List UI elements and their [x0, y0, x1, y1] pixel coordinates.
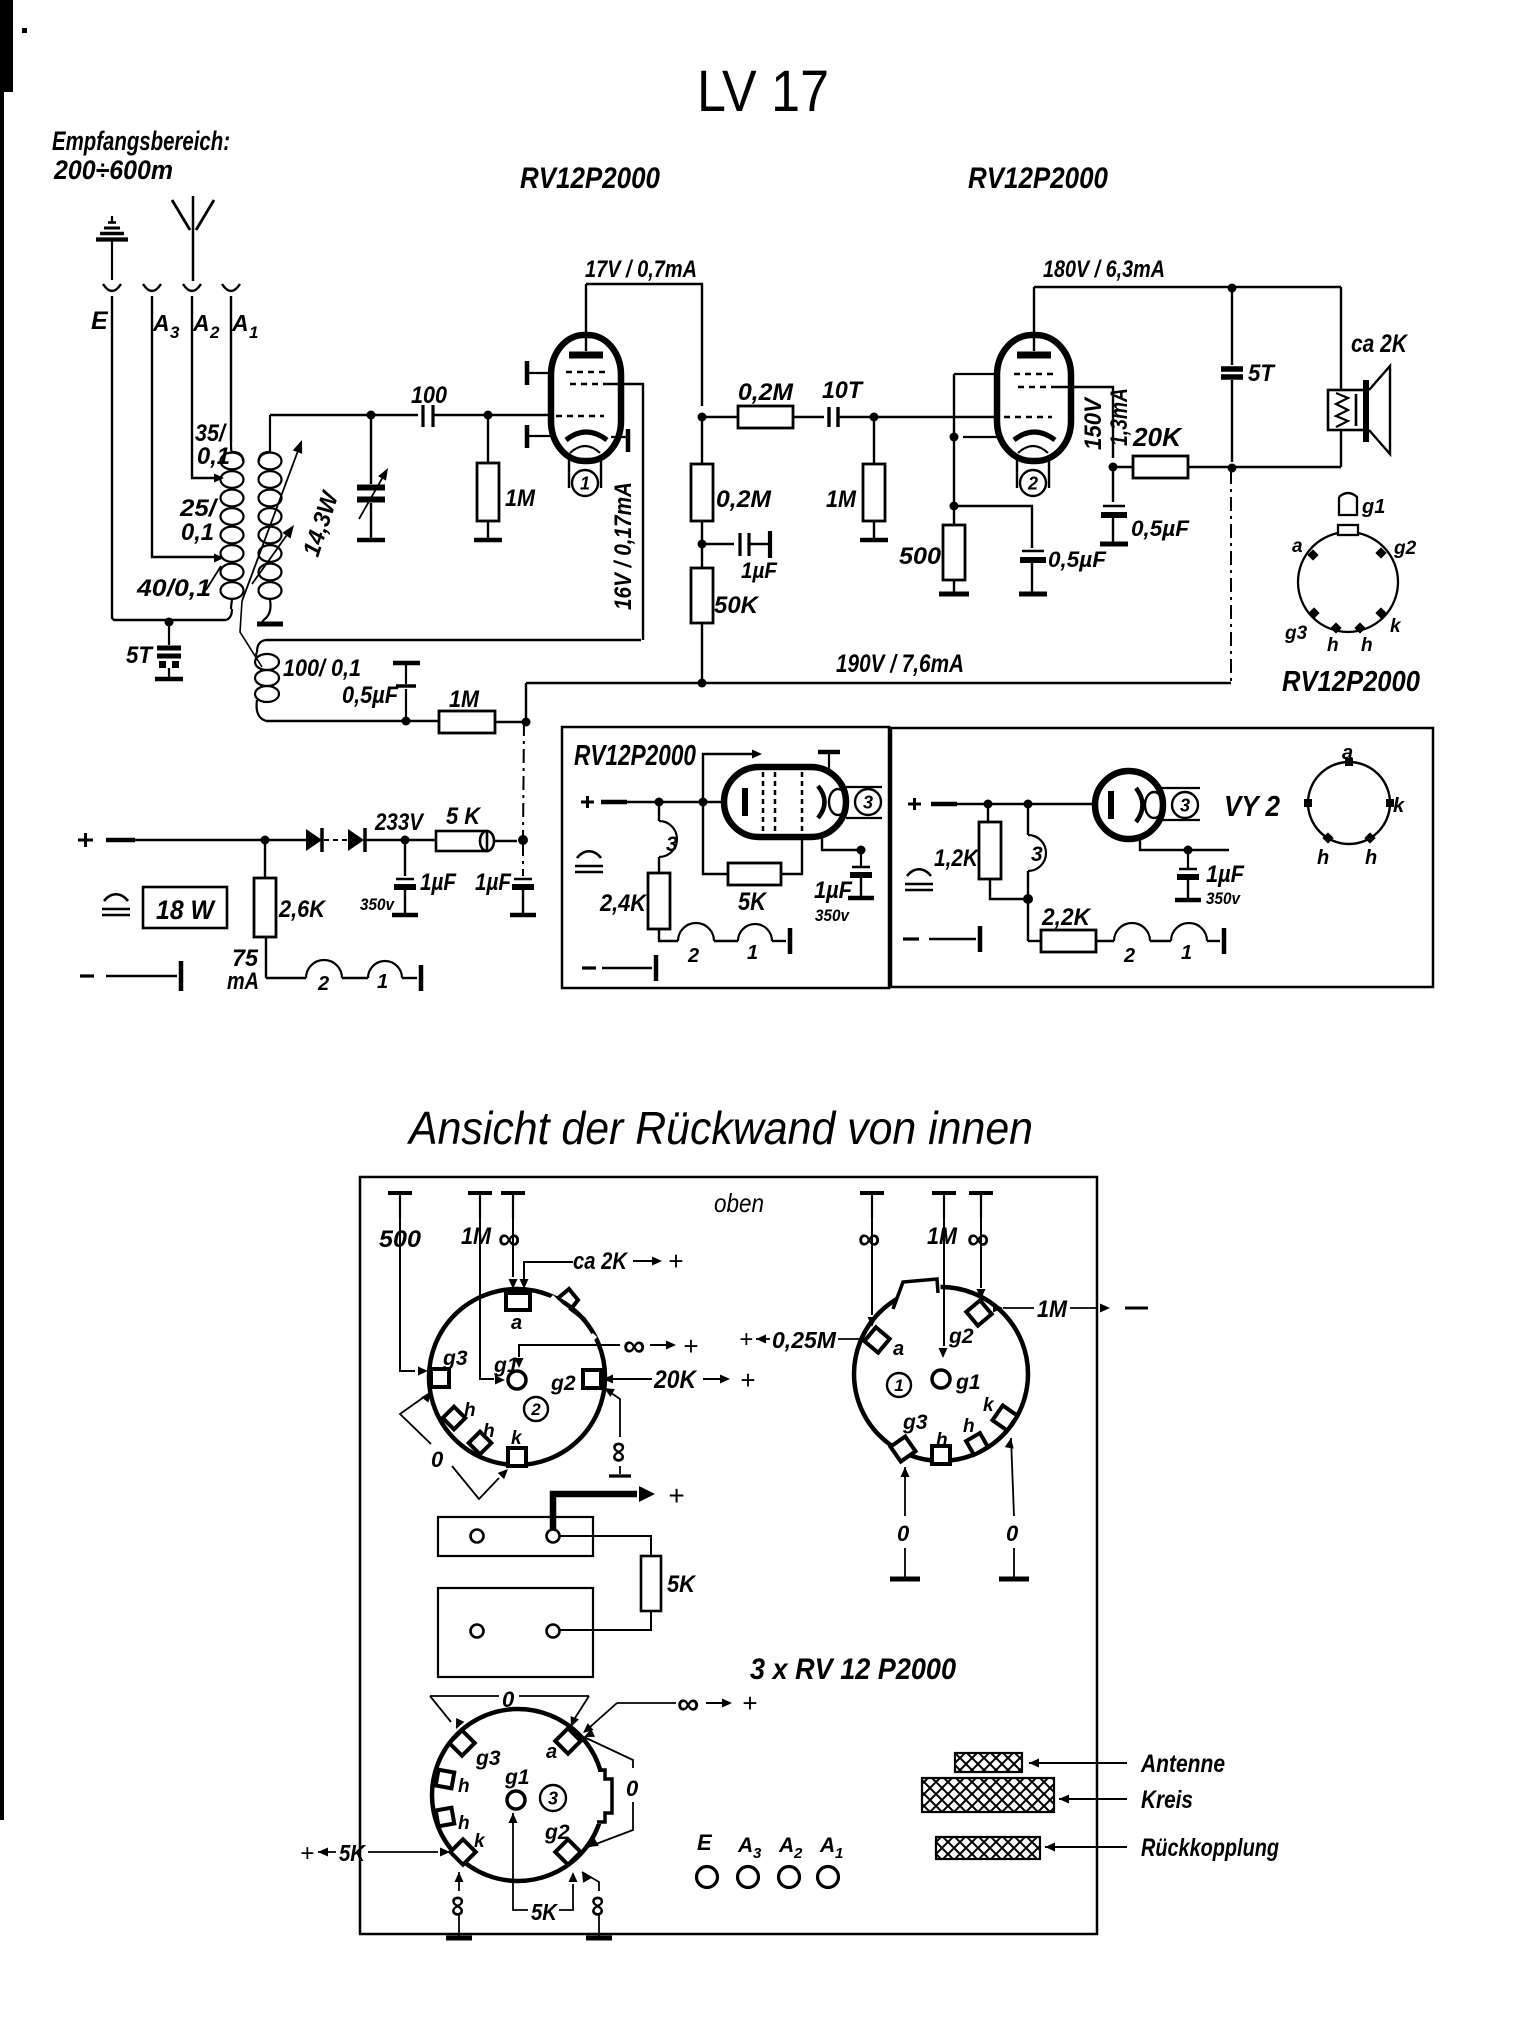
resistor 2,4K box1 [658, 857, 660, 873]
node dot [655, 798, 664, 807]
tube V1 RV12P2000 envelope [551, 335, 621, 461]
svg-text:0: 0 [502, 1687, 515, 1712]
svg-text:0: 0 [897, 1521, 910, 1546]
node dot [1228, 284, 1237, 293]
svg-text:Antenne: Antenne [1140, 1750, 1225, 1778]
node dot [402, 717, 411, 726]
jack A3 [143, 284, 161, 291]
tube V2 RV12P2000 envelope [997, 335, 1071, 461]
wire grid node [270, 414, 418, 416]
capacitor 0,5uF screen [1112, 467, 1114, 502]
minus terminal box1 [582, 966, 596, 969]
svg-text:1M: 1M [826, 486, 857, 513]
svg-text:∞: ∞ [498, 1221, 520, 1256]
svg-text:h: h [483, 1421, 495, 1442]
svg-text:RV12P2000: RV12P2000 [520, 162, 660, 195]
wire 5K to strip2 [560, 1611, 651, 1630]
svg-text:0,5µF: 0,5µF [1131, 516, 1190, 541]
svg-text:A: A [737, 1834, 753, 1857]
node dot 233V [401, 836, 410, 845]
svg-text:g1: g1 [1361, 496, 1385, 518]
wire [433, 414, 553, 416]
node dot [984, 800, 993, 809]
wire 1M to g1 socket1 [943, 1218, 945, 1346]
svg-text:k: k [474, 1831, 486, 1852]
socket 3 center pin g1 [507, 1791, 525, 1809]
resistor 1,2K [987, 804, 989, 822]
socket 1 circle [854, 1287, 1028, 1461]
variometer link to feedback coil [240, 601, 262, 667]
wire grid V2 [874, 416, 998, 418]
svg-text:0,5µF: 0,5µF [342, 682, 399, 709]
svg-text:3: 3 [170, 323, 180, 342]
box 18W [143, 887, 227, 928]
svg-text:150V: 150V [1080, 396, 1107, 450]
socket 2 pin g3 [431, 1369, 449, 1387]
svg-text:E: E [697, 1830, 713, 1855]
svg-text:40/0,1: 40/0,1 [136, 575, 211, 602]
wire 0 to g3 and k [421, 1392, 431, 1403]
capacitor 1uF horizontal [702, 543, 734, 545]
resistor 0,2M coupling horizontal [702, 416, 738, 418]
tube V3 cathode bar [742, 788, 748, 816]
tube V1 cathode [566, 432, 607, 440]
svg-text:1M: 1M [505, 485, 536, 512]
svg-text:500: 500 [899, 543, 942, 570]
svg-text:+: + [739, 1326, 753, 1353]
socket VY2 diagram [1308, 762, 1390, 844]
resistor 5K rear [641, 1556, 661, 1611]
tube V2 anode [1017, 352, 1051, 359]
coil grid winding 14,3W [259, 453, 282, 470]
wire A1 to coil top [230, 296, 232, 443]
socket 1 number 1 [887, 1373, 911, 1397]
wire to speaker [1340, 287, 1342, 390]
tube V2 screen grid [1014, 373, 1054, 376]
rear panel frame [360, 1177, 1097, 1934]
svg-text:a: a [893, 1338, 904, 1360]
svg-text:0,2M: 0,2M [738, 379, 794, 406]
tube V2 control grid [1004, 416, 1052, 419]
svg-text:∞: ∞ [677, 1686, 699, 1721]
svg-text:A: A [231, 310, 249, 336]
terminal 500 [388, 1191, 412, 1195]
wire suppressor loop [266, 639, 641, 641]
svg-text:3 x RV 12 P2000: 3 x RV 12 P2000 [750, 1653, 956, 1686]
svg-text:∞: ∞ [603, 1441, 636, 1462]
svg-text:∞: ∞ [623, 1328, 645, 1363]
node dot [1024, 800, 1033, 809]
svg-text:h: h [1317, 847, 1329, 869]
minus terminal [80, 974, 94, 977]
wire g2 to inf vertical [604, 1388, 615, 1397]
svg-text:200÷600m: 200÷600m [53, 155, 173, 185]
variometer arrow 14,3W [252, 536, 286, 584]
svg-text:mA: mA [227, 968, 259, 995]
wire inf to a [512, 1218, 514, 1277]
svg-text:1: 1 [249, 323, 258, 342]
capacitor 1uF box2 [1140, 837, 1229, 850]
svg-text:1M: 1M [1037, 1296, 1068, 1323]
svg-text:0,25M: 0,25M [772, 1327, 837, 1353]
wire inf to g2 socket1 [980, 1218, 982, 1288]
capacitor 100 [421, 405, 424, 427]
dash-dot link to 1M node [523, 722, 524, 838]
thick plus arrow [553, 1494, 637, 1530]
tube VY2 anode arc [1136, 788, 1143, 822]
svg-text:∞: ∞ [858, 1221, 880, 1256]
svg-text:1µF: 1µF [741, 558, 778, 583]
svg-text:h: h [458, 1776, 470, 1797]
svg-text:1,3mA: 1,3mA [1106, 388, 1133, 446]
terminal strip 1 [438, 1517, 593, 1556]
svg-text:g2: g2 [948, 1325, 974, 1348]
svg-text:+: + [300, 1840, 314, 1867]
wire 500 to g3 [400, 1218, 415, 1371]
socket 2 pin k [508, 1448, 526, 1466]
earth electrode [111, 216, 113, 222]
node dot anode V1 [698, 413, 707, 422]
svg-text:1: 1 [835, 1845, 843, 1862]
svg-text:1M: 1M [449, 686, 480, 713]
socket 3 pin h2 [436, 1808, 455, 1827]
wire 1M to g1 [480, 1218, 494, 1379]
wire inf to a socket1 [871, 1218, 873, 1315]
node dot [950, 502, 959, 511]
resistor 5K tubular [405, 839, 436, 841]
node dot [698, 540, 707, 549]
capacitor 1uF 350v second [522, 842, 524, 876]
svg-text:k: k [1390, 616, 1402, 637]
svg-text:+: + [668, 1246, 683, 1276]
coil antenna winding 35/0,1 25/0,1 40/0,1 [221, 453, 244, 470]
tube V1 screen grid [566, 371, 606, 374]
wire [838, 416, 874, 418]
svg-text:a: a [511, 1312, 522, 1334]
grid1 hookup wire box1 [703, 754, 752, 802]
terminal 1M right [932, 1191, 956, 1195]
wire inf right to a [617, 1702, 676, 1704]
wire k to inf ground [455, 1872, 464, 1882]
wire strip to 5K [560, 1536, 651, 1556]
capacitor 1uF 350v first [404, 840, 406, 876]
socket 3 pin a [555, 1728, 580, 1753]
socket 3 number 3 [540, 1785, 566, 1811]
trimmer Kreis hatched [922, 1778, 1054, 1812]
plus terminal [78, 839, 93, 842]
capacitor 0,5uF feedback [393, 661, 420, 666]
wire g2 to inf ground [582, 1872, 591, 1883]
tube V1 control grid [556, 415, 604, 418]
svg-text:2: 2 [317, 973, 329, 995]
socket 1 pin g2 [966, 1300, 991, 1325]
svg-text:3: 3 [548, 1788, 558, 1808]
node dot screen V2 [1109, 463, 1118, 472]
capacitor 10T [827, 407, 830, 427]
svg-text:1: 1 [580, 473, 590, 493]
resistor 1M feedback [439, 711, 495, 733]
wire [495, 721, 526, 723]
socket 2 center pin g1 [508, 1371, 526, 1389]
trimmer Antenne hatched [955, 1753, 1022, 1772]
svg-text:RV12P2000: RV12P2000 [574, 740, 696, 772]
socket 2 pin h1 [443, 1407, 466, 1430]
svg-text:g3: g3 [475, 1747, 501, 1770]
svg-text:1µF: 1µF [475, 869, 512, 896]
socket 3 circle [432, 1709, 604, 1881]
svg-text:oben: oben [714, 1188, 764, 1218]
svg-text:g3: g3 [1284, 623, 1308, 644]
svg-text:0: 0 [1006, 1521, 1019, 1546]
svg-text:h: h [1327, 635, 1339, 656]
terminal inf right1 [860, 1191, 884, 1195]
svg-text:1,2K: 1,2K [934, 845, 979, 872]
node dot main B+ [518, 835, 528, 845]
resistor 0,2M vertical [701, 417, 703, 464]
inset box 2 frame [891, 728, 1433, 987]
wire 5K bracket g1 to g2 [509, 1813, 518, 1823]
terminal inf right2 [969, 1191, 993, 1195]
svg-text:5 K: 5 K [446, 803, 482, 830]
svg-text:2,2K: 2,2K [1041, 904, 1092, 931]
node dot [1228, 464, 1237, 473]
svg-text:Rückkopplung: Rückkopplung [1141, 1834, 1279, 1862]
socket 3 pin g3 [449, 1730, 474, 1755]
svg-text:20K: 20K [1132, 422, 1183, 452]
svg-text:1µF: 1µF [1206, 861, 1245, 888]
jack A1 [222, 284, 240, 291]
node dot 50K [698, 679, 707, 688]
tube V3 anode arc [818, 786, 825, 818]
svg-text:+: + [740, 1365, 755, 1395]
svg-text:1M: 1M [461, 1223, 492, 1250]
resistor 1M grid leak [487, 415, 489, 463]
svg-text:Empfangsbereich:: Empfangsbereich: [52, 126, 230, 156]
plus terminal box1 [581, 801, 594, 804]
svg-text:A: A [819, 1834, 835, 1857]
socket 1 notch [893, 1276, 941, 1307]
svg-text:5K: 5K [667, 1571, 697, 1598]
svg-text:100/ 0,1: 100/ 0,1 [283, 655, 361, 682]
svg-text:350v: 350v [1206, 889, 1241, 908]
svg-text:a: a [1342, 742, 1353, 764]
socket 3 pin h1 [436, 1770, 455, 1789]
svg-text:g1: g1 [504, 1766, 530, 1789]
svg-text:1µF: 1µF [814, 877, 853, 904]
resistor 1M grid leak V2 [873, 417, 875, 464]
svg-text:2: 2 [209, 323, 220, 342]
svg-text:5T: 5T [1248, 360, 1276, 387]
svg-text:h: h [963, 1416, 975, 1437]
wire 20K out [1188, 466, 1341, 468]
tube V2 base with pin circle 2 [1016, 459, 1018, 488]
svg-text:g2: g2 [550, 1372, 576, 1395]
wire [793, 416, 824, 418]
tube V3 grids dashed [762, 772, 765, 832]
wire E down [112, 296, 226, 620]
svg-text:VY 2: VY 2 [1224, 791, 1280, 823]
svg-text:3: 3 [666, 833, 678, 856]
svg-text:2: 2 [1123, 945, 1135, 967]
svg-text:350v: 350v [360, 895, 395, 914]
wire A3 to coil tap 40/0,1 [152, 296, 214, 557]
svg-text:a: a [1292, 536, 1303, 557]
svg-text:180V / 6,3mA: 180V / 6,3mA [1043, 256, 1165, 283]
node dot [484, 411, 493, 420]
svg-text:ca 2K: ca 2K [573, 1248, 628, 1275]
ground bar of grid coil [257, 622, 283, 627]
svg-text:0,5µF: 0,5µF [1048, 547, 1107, 572]
socket 3 pin g2 [555, 1839, 580, 1864]
minus terminal box2 [903, 937, 919, 940]
svg-text:RV12P2000: RV12P2000 [1282, 666, 1420, 698]
svg-text:∞: ∞ [442, 1895, 475, 1916]
wire plus [106, 838, 135, 843]
svg-text:2: 2 [530, 1400, 541, 1419]
socket 1 pin k [992, 1405, 1017, 1430]
socket 2 pin g2 [583, 1370, 601, 1388]
ground bar under 500 [939, 592, 969, 597]
socket RV12P2000 diagram [1298, 532, 1398, 632]
socket 1 pin h bottom [932, 1446, 950, 1464]
wire 1M right [993, 1304, 1003, 1313]
svg-text:g1: g1 [955, 1371, 981, 1394]
svg-text:ca 2K: ca 2K [1351, 330, 1409, 358]
wire 20K from g2 [603, 1375, 613, 1384]
svg-text:2: 2 [1027, 473, 1038, 493]
svg-text:16V / 0,17mA: 16V / 0,17mA [610, 482, 637, 610]
svg-text:25/: 25/ [179, 495, 219, 522]
svg-text:k: k [983, 1395, 995, 1416]
jack A2 [183, 284, 201, 291]
svg-text:190V / 7,6mA: 190V / 7,6mA [836, 650, 964, 678]
svg-text:1: 1 [377, 971, 388, 993]
svg-text:10T: 10T [822, 377, 864, 404]
pin circle 3 box2 [1160, 787, 1200, 789]
socket 2 circle [429, 1289, 605, 1465]
scan speck [22, 28, 27, 33]
socket 2 number 2 [524, 1397, 548, 1421]
node dot [870, 413, 879, 422]
trimmer Rueckkopplung hatched [936, 1837, 1040, 1859]
svg-text:A: A [192, 310, 210, 336]
capacitor 5T antenna [168, 622, 170, 645]
wire anode V1 to node [586, 284, 702, 406]
dashed link [324, 839, 348, 841]
svg-text:2: 2 [687, 945, 699, 967]
resistor 5K box1 [703, 802, 728, 874]
svg-text:a: a [546, 1741, 557, 1763]
resistor 2,2K [1028, 940, 1041, 942]
resistor 50K [691, 568, 713, 623]
svg-text:2: 2 [793, 1845, 803, 1862]
wire screen-cathode V2 [953, 374, 955, 525]
svg-text:100: 100 [411, 382, 448, 409]
socket 1 pin g3 [890, 1436, 915, 1461]
scan edge artifact [0, 0, 13, 92]
svg-text:5K: 5K [531, 1899, 558, 1925]
svg-text:RV12P2000: RV12P2000 [968, 162, 1108, 195]
svg-text:3: 3 [863, 792, 873, 812]
tube V3 top terminal [818, 750, 840, 755]
coil feedback 100/0,1 [255, 654, 279, 670]
svg-text:h: h [1365, 847, 1377, 869]
antenna [172, 200, 190, 230]
bus 190V/7,6mA [526, 682, 1231, 684]
node dot [522, 718, 531, 727]
wire 0 top to g3 and a [430, 1695, 499, 1697]
wire anode V2 supply 180V [1034, 286, 1341, 288]
variometer arrow long [242, 452, 297, 601]
svg-text:h: h [1361, 635, 1373, 656]
heater winding box2 [1096, 940, 1114, 942]
diode D1 [265, 839, 306, 841]
svg-text:18 W: 18 W [156, 895, 216, 925]
node dot box2 [1023, 894, 1033, 904]
resistor 2,6K [264, 840, 266, 878]
tube VY2 cathode bar [1108, 791, 1114, 819]
heater winding box1 [659, 929, 678, 941]
svg-text:h: h [458, 1813, 470, 1834]
svg-text:0: 0 [431, 1447, 444, 1472]
svg-text:350v: 350v [815, 906, 850, 925]
node dot [261, 836, 270, 845]
svg-text:5K: 5K [339, 1840, 366, 1866]
inset box 1 frame [562, 727, 889, 988]
svg-text:g2: g2 [544, 1821, 570, 1844]
svg-text:20K: 20K [653, 1366, 698, 1394]
variable capacitor tuning [370, 415, 372, 484]
svg-text:1M: 1M [927, 1223, 958, 1250]
svg-text:Kreis: Kreis [1141, 1786, 1193, 1814]
svg-text:+: + [683, 1331, 698, 1361]
svg-text:1: 1 [1181, 942, 1192, 964]
svg-text:g3: g3 [902, 1411, 928, 1434]
tube V3 envelope horizontal [724, 767, 846, 837]
wire A2 to coil tap 25/0,1 [192, 296, 214, 478]
svg-text:3: 3 [1031, 843, 1043, 866]
tube V1 suppressor grid [570, 383, 604, 386]
wire 50K to bus [701, 623, 703, 683]
svg-text:17V / 0,7mA: 17V / 0,7mA [585, 256, 697, 283]
AC symbol box2 [907, 869, 931, 876]
AC symbol mains [104, 894, 128, 901]
AC symbol box1 [577, 851, 601, 858]
jack E [103, 284, 121, 291]
dash-dot from 20K node to 190V bus [1230, 470, 1232, 683]
svg-text:Ansicht der Rückwand von innen: Ansicht der Rückwand von innen [406, 1102, 1033, 1154]
wire 0 to k ground [1005, 1438, 1014, 1449]
svg-text:E: E [91, 307, 109, 335]
tube V2 cathode [1014, 432, 1055, 440]
tube V2 suppressor grid [1018, 386, 1052, 389]
capacitor 0,5uF cathode [954, 506, 1032, 548]
svg-text:1: 1 [747, 942, 758, 964]
node dot E wire [165, 618, 174, 627]
heater winding taps 2 1 [265, 937, 267, 978]
node dot [367, 411, 376, 420]
socket 2 pin a [506, 1293, 530, 1310]
diode D2 [348, 829, 364, 851]
svg-text:5T: 5T [126, 642, 154, 669]
socket 3 pin k [450, 1839, 475, 1864]
svg-text:k: k [1393, 795, 1405, 817]
svg-text:2,4K: 2,4K [599, 890, 647, 917]
svg-text:h: h [464, 1400, 476, 1421]
svg-text:0,1: 0,1 [181, 519, 214, 546]
svg-text:50K: 50K [714, 592, 760, 619]
node dot [699, 798, 708, 807]
